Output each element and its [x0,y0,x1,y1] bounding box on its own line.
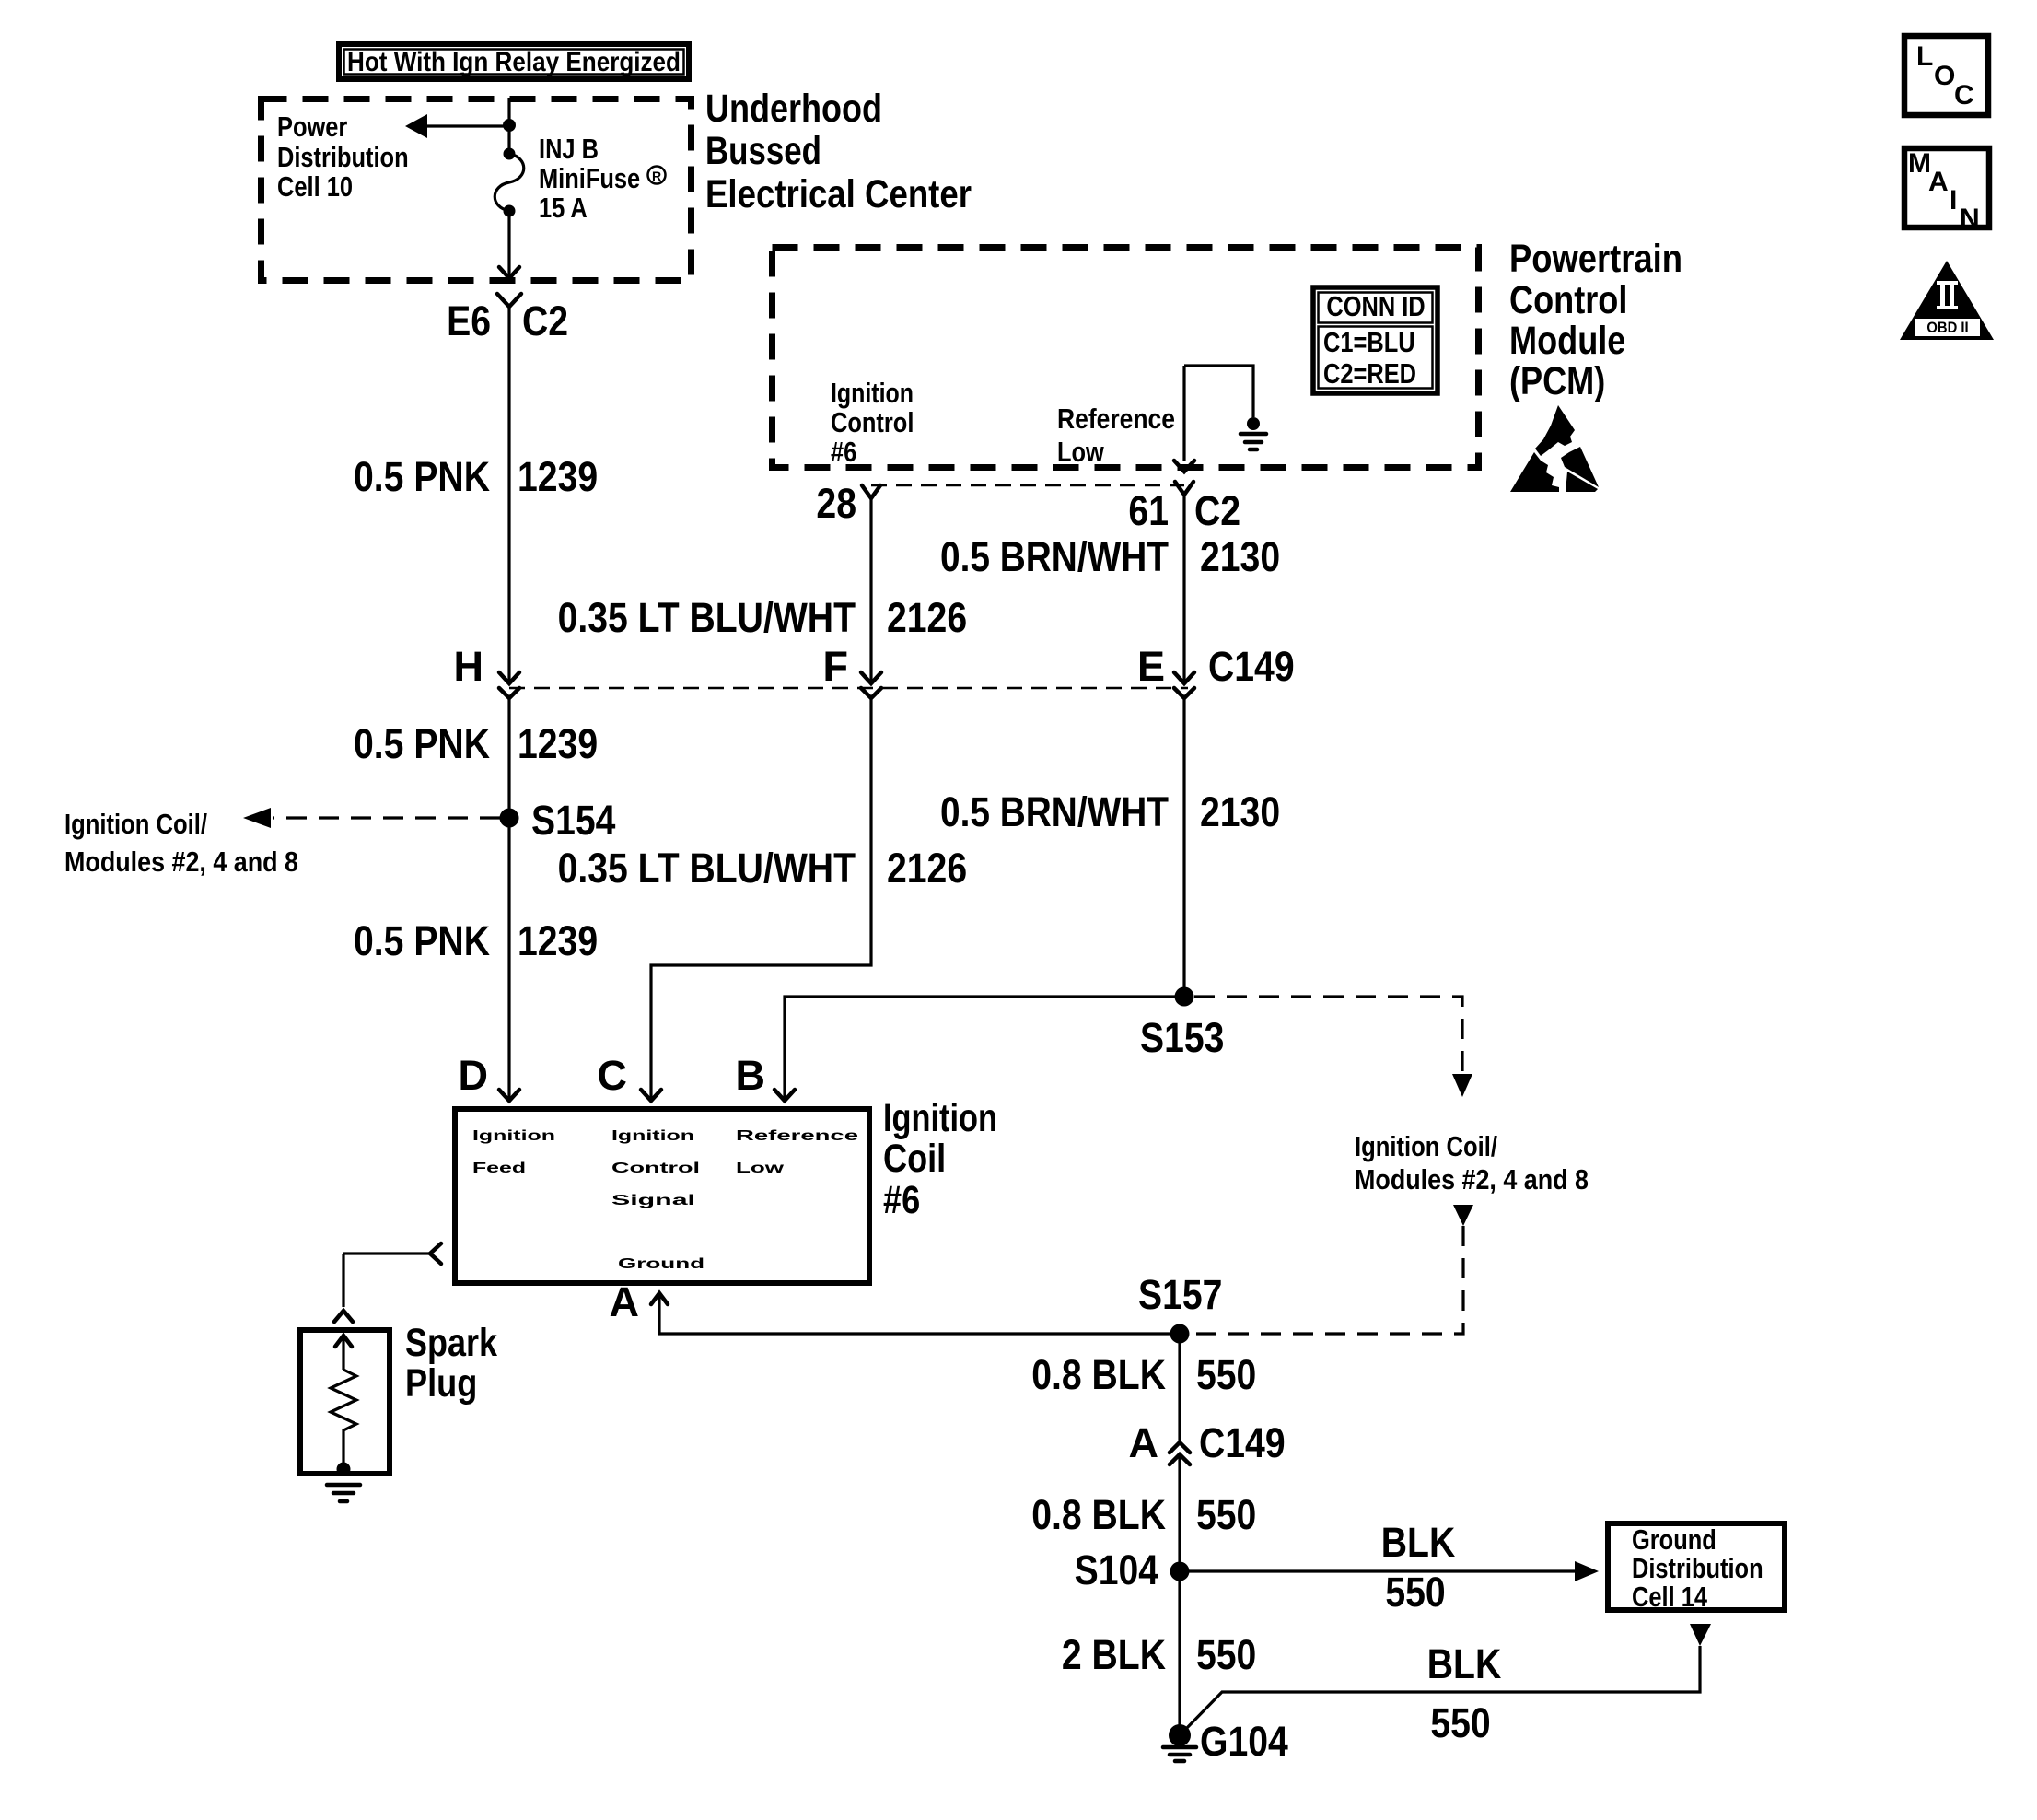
svg-text:C: C [1954,80,1974,111]
svg-text:550: 550 [1430,1699,1490,1746]
svg-text:Spark: Spark [405,1321,497,1365]
svg-text:1239: 1239 [518,917,598,964]
pin H fork [499,688,519,698]
pin 61 fork [1175,482,1193,495]
svg-text:Reference: Reference [1057,402,1175,435]
svg-text:A: A [1928,167,1949,197]
MAIN symbol [1904,148,1989,234]
wire 0.8 BLK 550 (S157 down) [1178,1334,1181,1441]
svg-text:OBD II: OBD II [1926,319,1968,336]
svg-text:Feed: Feed [472,1161,526,1176]
wire from box edge to feed junction [507,98,510,126]
svg-text:Modules #2, 4 and 8: Modules #2, 4 and 8 [1355,1163,1589,1196]
svg-text:A: A [610,1278,640,1325]
label Powertrain Control Module (PCM) [1509,237,1682,403]
svg-text:L: L [1916,41,1933,72]
wire fuse to connector C2 [507,211,510,277]
label 0.5 PNK 1239 (segment 3) [354,917,598,964]
svg-text:Ground: Ground [618,1256,704,1272]
label 0.5 PNK 1239 [354,453,598,500]
dashed wire to Ignition Coil/Modules #2,4,8 [273,816,500,819]
svg-text:0.8 BLK: 0.8 BLK [1031,1351,1166,1398]
coil pin labels [472,1128,858,1272]
svg-text:R: R [652,169,661,183]
svg-text:C: C [598,1052,628,1099]
svg-text:Ground: Ground [1632,1523,1717,1556]
svg-text:F: F [823,643,849,690]
svg-text:BLK: BLK [1427,1640,1502,1687]
svg-text:1239: 1239 [518,453,598,500]
svg-text:G104: G104 [1200,1718,1288,1765]
svg-text:CONN ID: CONN ID [1326,290,1425,322]
Ignition Coil #6 box [455,1109,869,1283]
svg-text:C149: C149 [1208,643,1295,690]
wire S153 to pin B [785,997,1184,1100]
PCM bottom connector row: pins 28 and 61 C2 [871,484,1184,486]
svg-text:2130: 2130 [1200,788,1280,835]
svg-text:E6: E6 [447,297,491,344]
label box "Hot With Ign Relay Energized" [339,44,689,79]
svg-text:Low: Low [736,1161,785,1176]
ground G104 [1163,1718,1288,1765]
svg-text:Control: Control [1509,278,1627,322]
pin E arrowhead + fork [1174,672,1194,683]
splice S153 [1175,987,1194,1007]
label Spark Plug [405,1321,497,1406]
svg-text:C149: C149 [1199,1419,1286,1466]
splice S157 [1170,1324,1190,1344]
svg-text:Powertrain: Powertrain [1509,237,1682,281]
svg-text:1239: 1239 [518,720,598,767]
wire 0.35 LT BLU/WHT (28 to F) [869,498,872,682]
Ground Distribution Cell 14 box [1608,1523,1785,1613]
svg-text:#6: #6 [883,1178,920,1222]
connector C149 row (H / F / E) [509,687,1188,689]
wire to Power Distribution arrow [425,124,509,127]
svg-text:C1=BLU: C1=BLU [1323,326,1415,358]
svg-text:61: 61 [1128,487,1169,534]
svg-text:S104: S104 [1075,1546,1158,1593]
svg-text:Power: Power [277,111,347,143]
svg-text:Control: Control [831,406,914,438]
svg-text:0.5 PNK: 0.5 PNK [354,453,490,500]
svg-text:550: 550 [1196,1631,1256,1678]
svg-text:D: D [459,1052,489,1099]
label Ignition Coil #6 [883,1096,997,1222]
label Ignition Control #6 [831,377,914,468]
svg-text:Underhood: Underhood [705,87,882,131]
wire 0.5 BRN/WHT (61 to E) [1182,495,1185,682]
svg-text:O: O [1934,61,1955,91]
return wire BLK 550 from Ground Distribution [1183,1624,1711,1746]
LOC symbol [1904,36,1988,115]
splice S154 [500,809,519,828]
svg-text:Low: Low [1057,436,1105,468]
svg-text:Cell 10: Cell 10 [277,170,353,203]
fuse INJ B MiniFuse 15 A [495,126,524,217]
label Ignition Coil/Modules #2, 4 and 8 (left) [64,808,298,878]
svg-text:S157: S157 [1138,1271,1222,1318]
label Reference Low [1057,402,1175,468]
spark plug [300,1330,390,1501]
wire 0.5 PNK 1239 (segment 1) [507,307,510,682]
svg-text:Ignition: Ignition [883,1096,997,1140]
svg-text:Control: Control [611,1161,700,1176]
svg-text:Distribution: Distribution [277,141,409,173]
ESD symbol [1510,405,1599,492]
svg-text:2126: 2126 [887,845,967,892]
svg-text:0.35 LT BLU/WHT: 0.35 LT BLU/WHT [558,845,856,892]
dashed wire S153 to Ignition Coil/Modules #2,4,8 [1194,997,1462,1072]
pin F arrowhead + fork [861,672,881,683]
svg-text:Electrical Center: Electrical Center [705,172,972,216]
svg-text:S154: S154 [531,797,615,844]
pin 28 fork [862,485,880,498]
wire 2126 down, jog left, into pin C [651,698,871,1100]
label Ignition Coil/Modules #2, 4 and 8 (right) [1355,1130,1589,1196]
label INJ B MiniFuse (R) 15 A [539,133,666,224]
svg-text:S153: S153 [1140,1014,1224,1061]
svg-text:BLK: BLK [1381,1519,1456,1566]
pin A ground wire from coil [610,1278,1181,1334]
connector A C149 (inline) [1129,1419,1286,1466]
svg-text:Bussed: Bussed [705,129,821,173]
svg-text:C2: C2 [522,297,568,344]
svg-text:Module: Module [1509,319,1625,363]
svg-text:Plug: Plug [405,1361,477,1406]
splice S104 [1170,1562,1190,1581]
node: feed junction dot [503,119,516,132]
svg-text:0.8 BLK: 0.8 BLK [1031,1491,1166,1538]
svg-text:A: A [1129,1419,1159,1466]
svg-text:Signal: Signal [611,1193,695,1208]
label Underhood Bussed Electrical Center [705,87,972,216]
PCM internal ground wire [1174,366,1266,472]
svg-text:550: 550 [1196,1491,1256,1538]
svg-text:0.5 PNK: 0.5 PNK [354,917,490,964]
svg-text:MiniFuse: MiniFuse [539,162,640,194]
svg-text:2 BLK: 2 BLK [1062,1631,1167,1678]
svg-text:I: I [1950,185,1957,216]
svg-text:N: N [1960,204,1980,234]
wire 2 BLK 550 (S104 to G104) [1178,1571,1181,1730]
wire BLK 550 to Ground Distribution [1180,1569,1577,1572]
dashed continuation to S157 [1453,1205,1473,1226]
svg-text:(PCM): (PCM) [1509,359,1605,403]
svg-text:0.5 PNK: 0.5 PNK [354,720,490,767]
Underhood Bussed Electrical Center dashed box [262,99,692,281]
wire 0.5 PNK 1239 (segment 2) [507,698,510,1100]
svg-text:INJ B: INJ B [539,133,599,165]
svg-text:0.5 BRN/WHT: 0.5 BRN/WHT [940,788,1169,835]
wire 0.5 BRN/WHT segment 2 [1182,698,1185,997]
arrowhead to Power Distribution [405,114,427,138]
svg-text:0.5 BRN/WHT: 0.5 BRN/WHT [940,533,1169,580]
label Power Distribution Cell 10 [277,111,409,203]
connector E6 / C2 [447,294,568,344]
svg-text:Ignition Coil/: Ignition Coil/ [64,808,207,840]
Powertrain Control Module dashed box [773,248,1479,468]
svg-text:2126: 2126 [887,594,967,641]
svg-text:28: 28 [816,480,856,527]
svg-text:Ignition: Ignition [611,1128,694,1144]
arrowhead at box edge [499,267,519,278]
svg-text:Coil: Coil [883,1137,946,1181]
svg-text:#6: #6 [831,436,856,468]
svg-text:Cell 14: Cell 14 [1632,1581,1708,1613]
svg-text:E: E [1137,643,1165,690]
coil secondary output to spark plug [334,1243,441,1322]
svg-text:H: H [454,643,484,690]
svg-text:0.35 LT BLU/WHT: 0.35 LT BLU/WHT [558,594,856,641]
svg-text:Modules #2, 4 and 8: Modules #2, 4 and 8 [64,846,298,878]
svg-text:Ignition: Ignition [472,1128,555,1144]
svg-text:550: 550 [1196,1351,1256,1398]
svg-text:C2=RED: C2=RED [1323,357,1416,390]
svg-text:550: 550 [1385,1569,1445,1616]
svg-text:Hot With Ign Relay Energized: Hot With Ign Relay Energized [347,47,681,77]
svg-text:Reference: Reference [736,1128,858,1144]
svg-text:2130: 2130 [1200,533,1280,580]
svg-text:C2: C2 [1194,487,1240,534]
OBD II symbol [1900,261,1994,340]
svg-text:Ignition: Ignition [831,377,914,409]
pin D arrowhead into coil [499,1090,519,1101]
svg-text:Distribution: Distribution [1632,1552,1763,1584]
svg-text:Ignition Coil/: Ignition Coil/ [1355,1130,1497,1162]
svg-text:B: B [736,1052,766,1099]
svg-text:15 A: 15 A [539,192,588,224]
pin H arrowhead [499,672,519,683]
CONN ID box [1313,287,1438,393]
